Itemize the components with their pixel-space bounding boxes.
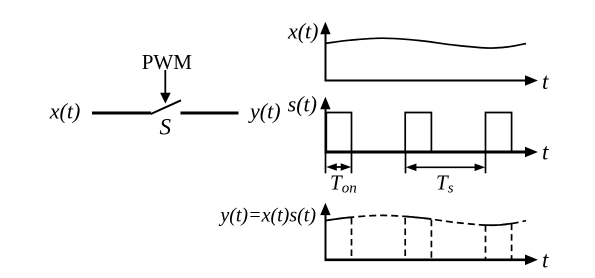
svg-text:PWM: PWM — [142, 50, 193, 74]
dashed vertical at pulse1 end — [351, 218, 353, 259]
node label x(t) input — [49, 99, 81, 124]
svg-text:y(t)=x(t)s(t): y(t)=x(t)s(t) — [218, 205, 316, 227]
plot 3 y-axis — [320, 203, 330, 260]
control arrow from PWM to switch — [160, 70, 171, 104]
label Ts — [436, 171, 454, 197]
plot 1 x-axis — [325, 75, 538, 86]
plot 2 x-axis bold — [325, 147, 538, 158]
plot 3 axis label y(t)=x(t)s(t) — [218, 205, 316, 227]
pulse 1 of s(t) — [326, 113, 351, 153]
svg-text:Ts: Ts — [436, 171, 454, 197]
plot 3 t label — [542, 247, 549, 272]
switch S blade — [151, 100, 181, 114]
tick below axis at pulse2 start — [405, 153, 407, 173]
label Ton — [330, 171, 357, 197]
svg-text:Ton: Ton — [330, 171, 357, 197]
dashed vertical at pulse3 end — [511, 224, 513, 259]
plot 1 y-axis — [320, 22, 330, 81]
tick below axis at pulse3 start — [485, 153, 487, 173]
plot 1 axis label x(t) — [287, 19, 319, 44]
svg-text:t: t — [542, 247, 549, 272]
dashed envelope of y(t) — [326, 215, 527, 225]
node label y(t) output — [248, 99, 281, 124]
dashed vertical at pulse3 start — [485, 225, 487, 258]
svg-text:x(t): x(t) — [287, 19, 319, 44]
svg-text:t: t — [542, 140, 549, 165]
pulse 2 of s(t) — [405, 113, 431, 153]
svg-text:x(t): x(t) — [49, 99, 81, 124]
Ton measurement double arrow — [326, 163, 351, 171]
solid y(t) segment during pulse 1 — [326, 215, 384, 220]
plot 1 signal curve x(t) — [326, 38, 527, 48]
dashed vertical at pulse2 end — [430, 220, 432, 259]
wire input — [92, 112, 151, 115]
Ts measurement double arrow — [406, 164, 485, 172]
svg-text:y(t): y(t) — [248, 99, 281, 124]
tick below axis at pulse1 end — [351, 153, 353, 173]
wire output — [181, 112, 239, 115]
svg-text:S: S — [159, 114, 171, 139]
plot 3 x-axis — [325, 255, 538, 266]
solid y(t) segment during pulse 3 — [478, 224, 512, 226]
plot 2 y-axis — [320, 97, 330, 152]
solid y(t) segment during pulse 2 — [395, 216, 433, 220]
label PWM — [142, 50, 193, 74]
plot 2 axis label s(t) — [288, 92, 317, 117]
dashed vertical at pulse2 start — [404, 218, 406, 259]
svg-text:s(t): s(t) — [288, 92, 317, 117]
plot 2 t label — [542, 140, 549, 165]
plot 1 t label — [542, 69, 549, 94]
label S — [159, 114, 171, 139]
tick below axis at pulse1 start — [325, 153, 327, 173]
pulse 3 of s(t) — [486, 113, 512, 153]
svg-text:t: t — [542, 69, 549, 94]
